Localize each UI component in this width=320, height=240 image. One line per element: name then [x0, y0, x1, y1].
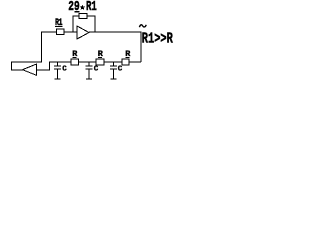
background — [0, 0, 181, 105]
svg-text:R1>>R: R1>>R — [142, 30, 173, 47]
wire: feedback tap — [73, 16, 79, 32]
wire: feedback right leg — [87, 16, 95, 32]
resistor R box 2 — [96, 59, 104, 65]
resistor R box 1 — [71, 59, 79, 65]
capacitor C1 — [54, 62, 61, 79]
resistor R box 3 — [122, 59, 129, 65]
resistor 29*R1 box — [79, 14, 87, 19]
buffer U2 triangle — [23, 64, 37, 75]
op-amp U1 triangle — [77, 26, 89, 39]
label R for ladder resistor 3 — [125, 49, 131, 59]
label ~ — [139, 25, 146, 27]
wire: amp output — [89, 32, 141, 62]
wire: ladder segment between R2 and R1 — [79, 61, 97, 63]
label R1 (underlined) — [55, 17, 63, 29]
label R for ladder resistor 2 — [98, 49, 104, 59]
svg-text:C: C — [94, 66, 99, 74]
wire: ladder left end to buffer input — [37, 62, 71, 70]
svg-text:C: C — [118, 66, 123, 74]
capacitor C3 — [110, 62, 117, 79]
wire: ladder segment between R3 and R2 — [104, 61, 122, 63]
label 29*R1 — [68, 0, 97, 15]
capacitor C2 — [86, 62, 93, 79]
wire: ladder segment right — [129, 61, 141, 63]
label R for ladder resistor 1 — [72, 49, 78, 59]
svg-text:R1: R1 — [86, 0, 97, 15]
resistor R1 box — [57, 29, 65, 35]
svg-text:C: C — [62, 66, 67, 74]
wire: buffer output to amp input riser — [12, 32, 57, 70]
wire: R1 to amp input — [64, 31, 77, 33]
label R1>>R — [142, 30, 173, 47]
